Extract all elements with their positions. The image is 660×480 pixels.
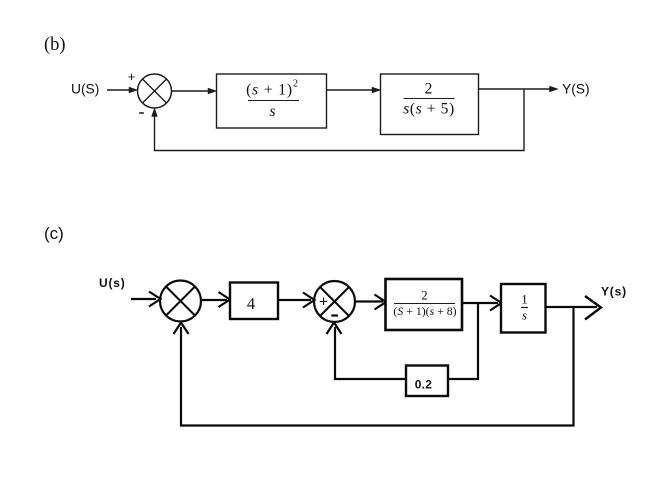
svg-text:Y(s): Y(s) (601, 285, 627, 299)
block G1 (s+1)^2/s (217, 74, 327, 128)
wire: input U(s) to summing junction S1c (131, 298, 156, 300)
block G2 fraction bar (404, 98, 455, 100)
svg-text:+: + (128, 69, 136, 84)
wire: junction S2c to block Gc (355, 300, 383, 302)
svg-text:s: s (522, 309, 527, 323)
minus sign at junction S1b (139, 112, 144, 114)
block K4 gain 4 (230, 283, 278, 320)
svg-text:(S + 1)(s + 8): (S + 1)(s + 8) (393, 304, 456, 318)
wire: block G2 output to Y(S) (479, 88, 551, 90)
block Gc fraction bar (394, 303, 455, 305)
open arrowhead inner feedback into junction S2c bottom (327, 323, 342, 335)
arrowhead into block G2 (372, 87, 381, 93)
block G2 2/s(s+5) (381, 74, 479, 135)
arrowhead feedback into junction S1b bottom (152, 108, 158, 117)
svg-text:U(S): U(S) (71, 82, 99, 97)
wire: input U(S) to summing junction (107, 89, 130, 91)
block Gc 2/((S+1)(s+8)) (386, 279, 463, 330)
svg-text:+: + (319, 294, 328, 311)
wire: summing junction to block G1 (172, 90, 210, 92)
arrowhead into junction S1b (129, 87, 138, 93)
wire: block G1 to block G2 (327, 89, 373, 91)
svg-text:s(s + 5): s(s + 5) (403, 101, 454, 118)
svg-text:2: 2 (425, 81, 433, 98)
wire: block Gc to block integrator (462, 302, 498, 304)
wire: integrator output to Y(s) (546, 306, 598, 308)
summing junction S2c (314, 281, 355, 322)
block integrator 1/s (501, 284, 546, 333)
integrator fraction bar (521, 307, 528, 309)
svg-text:4: 4 (247, 294, 255, 313)
open arrowhead into block Gc (375, 295, 387, 310)
svg-text:s: s (269, 103, 275, 120)
summing junction S1b (138, 74, 172, 108)
svg-text:(c): (c) (44, 224, 64, 243)
arrowhead into block G1 (208, 88, 217, 94)
open arrowhead into block K4 (219, 292, 231, 307)
wire: inner feedback left segment (0.2 block to junction S2c) (335, 327, 406, 379)
junction S1c cross (166, 287, 195, 316)
wire: junction S1c to block K4 (201, 299, 227, 301)
wire: inner feedback right segment (branch to 0.2 block) (448, 303, 478, 379)
svg-text:(b): (b) (44, 35, 66, 55)
summing junction S1c (160, 281, 201, 322)
svg-text:U(s): U(s) (99, 276, 126, 290)
wire: feedback path b (branch down, across, up into junction) (155, 89, 525, 151)
block G1 fraction bar (248, 100, 299, 102)
open arrowhead into junction S1c (149, 292, 161, 307)
svg-text:0.2: 0.2 (415, 378, 433, 392)
minus sign inside junction S2c (331, 314, 338, 316)
wire: block K4 to junction S2c (278, 299, 311, 301)
svg-text:1: 1 (521, 293, 527, 307)
svg-text:2: 2 (421, 289, 427, 303)
wire: outer feedback down-across-up (181, 307, 574, 426)
open arrowhead to Y(s) (585, 296, 601, 320)
open arrowhead into junction S2c (303, 293, 315, 308)
svg-text:Y(S): Y(S) (562, 82, 590, 97)
open arrowhead into integrator block (490, 296, 502, 311)
junction S1b cross (143, 79, 167, 103)
arrowhead to Y(S) (550, 86, 559, 92)
svg-text:(s + 1)2: (s + 1)2 (246, 79, 299, 99)
block H 0.2 (406, 366, 448, 397)
open arrowhead outer feedback into junction S1c bottom (174, 323, 189, 335)
junction S2c cross (320, 287, 349, 316)
